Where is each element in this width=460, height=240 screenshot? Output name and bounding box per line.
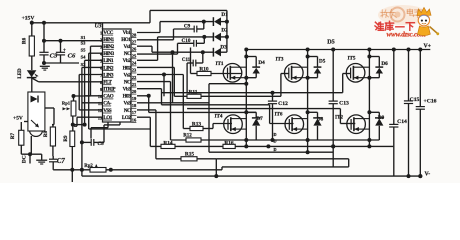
- svg-text:HIN1: HIN1: [103, 37, 114, 43]
- svg-text:D9: D9: [378, 115, 385, 121]
- wire opto-DC row: [21, 153, 41, 155]
- svg-text:D: D: [274, 132, 277, 137]
- watermark mascot: [417, 8, 431, 16]
- wire riser S4 bundle: [84, 60, 86, 124]
- svg-text:20: 20: [132, 89, 137, 94]
- node phase1 mid: [244, 110, 248, 114]
- node IT1 source: [244, 76, 248, 80]
- node CAO elbow: [147, 94, 151, 98]
- svg-text:R10: R10: [199, 67, 209, 73]
- node A3: [109, 168, 113, 172]
- svg-text:17: 17: [132, 110, 137, 115]
- wire bus146: [150, 145, 393, 147]
- wire bus161 (R15 run): [156, 158, 181, 160]
- wire R15 right: [197, 158, 216, 160]
- svg-text:ITRIP: ITRIP: [103, 87, 115, 93]
- capacitor C10: [178, 42, 194, 44]
- svg-text:R13: R13: [192, 122, 202, 128]
- LED D-LED: [27, 70, 37, 77]
- wire mesh drop A: [172, 52, 174, 103]
- wire R7 top: [20, 122, 22, 130]
- diode D3: [212, 48, 214, 57]
- diode D2: [212, 33, 214, 42]
- svg-text:HO1: HO1: [121, 37, 131, 43]
- wire riser rail: [215, 159, 217, 176]
- diode D5 cathode step: [317, 57, 319, 68]
- wire D9 top tie: [369, 111, 379, 113]
- wire bus140: [171, 139, 380, 141]
- svg-text:NC: NC: [124, 108, 131, 114]
- svg-text:D6: D6: [381, 61, 388, 67]
- svg-text:CA-: CA-: [103, 101, 111, 107]
- wire mesh riser R13: [182, 75, 184, 129]
- wire D8 top tie: [308, 111, 318, 113]
- svg-text:22: 22: [132, 75, 137, 80]
- svg-text:C14: C14: [397, 119, 407, 125]
- svg-text:CAO: CAO: [103, 94, 113, 100]
- svg-text:C5: C5: [50, 52, 58, 59]
- transistor IT4: [224, 115, 243, 134]
- resistor R16: [223, 144, 235, 148]
- svg-text:R12: R12: [183, 134, 192, 139]
- node bus83 end: [244, 82, 248, 86]
- svg-text:27: 27: [132, 39, 137, 44]
- transistor IT5: [346, 64, 365, 83]
- wire stray drop: [71, 170, 73, 182]
- resistor R7: [19, 130, 24, 145]
- svg-text:D5: D5: [327, 39, 335, 46]
- svg-text:H02: H02: [123, 65, 132, 71]
- wire LED to FLT: [39, 81, 103, 83]
- wire IT6 gate riser: [269, 105, 271, 124]
- node A2: [80, 168, 84, 172]
- wire mesh Vs2 row: [137, 74, 183, 76]
- wire LED to FLT diagonal: [32, 78, 39, 82]
- wire VSS left stub: [79, 109, 102, 111]
- svg-text:Vb3: Vb3: [123, 87, 132, 93]
- svg-text:13: 13: [98, 115, 103, 120]
- svg-text:NC: NC: [124, 51, 131, 57]
- optocoupler input diode: [31, 96, 38, 103]
- svg-text:Rp2: Rp2: [84, 164, 93, 169]
- svg-text:R14: R14: [163, 140, 173, 146]
- wire Vs1 riser: [151, 46, 153, 52]
- wire +15V drop to R6: [31, 21, 33, 37]
- transistor IT1: [223, 64, 242, 83]
- svg-text:18: 18: [132, 103, 137, 108]
- wire mesh row13 stub: [137, 116, 150, 118]
- wire Rp1 to R9: [72, 116, 74, 131]
- svg-text:LIN1: LIN1: [103, 58, 114, 64]
- svg-text:LIN3: LIN3: [103, 72, 114, 78]
- trimmer Rp2: [90, 168, 106, 173]
- svg-text:DC: DC: [21, 155, 27, 163]
- wire V+ top rail: [246, 49, 430, 51]
- resistor R9: [70, 131, 75, 147]
- wire R8 top: [52, 125, 54, 127]
- node C9 junction: [202, 20, 206, 24]
- svg-text:S1: S1: [81, 35, 87, 40]
- wire mesh bus112: [149, 111, 257, 113]
- svg-text:IT4: IT4: [214, 113, 222, 119]
- wire mesh riser B: [161, 89, 163, 105]
- svg-text:D7: D7: [256, 116, 263, 122]
- capacitor C8: [82, 141, 91, 143]
- wire diode anode column: [226, 10, 228, 52]
- wire +15V rail: [32, 22, 150, 24]
- wire C11 drop: [186, 63, 188, 93]
- svg-text:C12: C12: [278, 101, 288, 107]
- svg-text:+5V: +5V: [13, 116, 23, 122]
- wire mesh bus96 right: [201, 95, 281, 97]
- node IT3 source: [306, 76, 310, 80]
- wire mesh FLT row: [137, 81, 171, 83]
- svg-text:+15V: +15V: [22, 16, 35, 22]
- wire S1 row (C5/C6 top rail): [44, 40, 103, 42]
- svg-text:24: 24: [132, 61, 137, 66]
- wire input row S to pin 4: [89, 52, 103, 54]
- wire +15V elbow up: [149, 10, 151, 22]
- svg-text:D3: D3: [220, 45, 227, 51]
- svg-text:C9: C9: [184, 24, 191, 30]
- wire input row S to pin 5: [85, 59, 103, 61]
- wire phase3 column: [368, 50, 370, 147]
- svg-text:V+: V+: [424, 44, 432, 50]
- diode D6 cathode step: [378, 57, 380, 68]
- wire mesh riser R15: [155, 110, 157, 159]
- wire input row S to pin 7: [79, 74, 102, 76]
- svg-text:V-: V-: [425, 172, 431, 178]
- svg-text:28: 28: [132, 32, 137, 37]
- diode D6: [375, 66, 383, 68]
- resistor R6: [29, 36, 34, 56]
- wire bus152: [209, 151, 333, 153]
- node C11 junction: [201, 50, 205, 54]
- svg-text:VSS: VSS: [103, 108, 112, 114]
- node Vs2 row tap: [162, 73, 166, 77]
- svg-text:S2: S2: [81, 62, 87, 67]
- node bus146 phase3: [367, 144, 371, 148]
- wire riser S3 bundle: [90, 46, 92, 96]
- svg-text:Vs1: Vs1: [124, 44, 132, 50]
- svg-text:IT5: IT5: [347, 56, 355, 62]
- resistor R14: [161, 144, 175, 148]
- wire riser end159: [348, 159, 350, 167]
- svg-text:R6: R6: [22, 37, 28, 44]
- capacitor C9: [174, 28, 195, 30]
- wire Vs1 stub: [137, 45, 152, 47]
- wire mesh bus96 left: [174, 95, 187, 97]
- node C10 junction: [202, 35, 206, 39]
- wire mesh riser R11b: [163, 75, 165, 97]
- wire IT5 source to D6: [369, 77, 379, 79]
- diode D1: [212, 17, 214, 26]
- svg-text:IT6: IT6: [274, 111, 282, 117]
- node DC junction: [28, 152, 32, 156]
- wire opto right tap: [45, 107, 54, 109]
- node IT5 source: [367, 76, 371, 80]
- svg-text:LO2: LO2: [122, 115, 131, 121]
- svg-text:R8: R8: [44, 130, 49, 137]
- svg-text:+C16: +C16: [423, 98, 436, 104]
- wire tap to C8 branch: [73, 124, 85, 126]
- node phase2 rail: [306, 48, 310, 52]
- node phase2 low: [306, 138, 310, 142]
- wire LED to optocoupler: [31, 77, 33, 92]
- transistor IT6: [285, 115, 304, 134]
- wire bus166: [222, 166, 349, 168]
- svg-text:D1: D1: [221, 12, 228, 18]
- svg-text:23: 23: [132, 68, 137, 73]
- capacitor C12: [272, 93, 274, 101]
- svg-text:NC: NC: [124, 79, 131, 85]
- svg-text:FLT: FLT: [103, 79, 112, 85]
- svg-text:Vb1: Vb1: [123, 30, 132, 36]
- node D3 wire junction A: [171, 50, 175, 54]
- svg-text:C7: C7: [57, 158, 66, 165]
- svg-text:R7: R7: [11, 132, 16, 139]
- svg-text:+: +: [63, 47, 66, 53]
- wire mesh row12 stub: [137, 109, 156, 111]
- wire bus159: [216, 158, 348, 160]
- diode D4 cathode step: [255, 57, 257, 68]
- wire mesh H02 row: [137, 66, 174, 68]
- svg-text:26: 26: [132, 46, 137, 51]
- wire R13 run: [183, 128, 190, 130]
- node Rp1-C8 tap: [71, 123, 75, 127]
- node bus146 C13: [331, 144, 335, 148]
- svg-text:Vs3: Vs3: [124, 101, 132, 107]
- svg-text:LO1: LO1: [103, 115, 112, 121]
- wire IT5 gate riser: [342, 74, 344, 93]
- svg-text:HIN2: HIN2: [103, 44, 114, 50]
- node C5 bottom: [42, 61, 46, 65]
- svg-text:H03: H03: [123, 94, 132, 100]
- diode D7: [252, 117, 261, 119]
- wire Vb1 stub: [137, 32, 160, 34]
- svg-text:10: 10: [98, 94, 103, 99]
- wire top feed run: [150, 9, 227, 11]
- wire phase1 column: [245, 50, 247, 147]
- wire IT1 source to D4: [246, 77, 256, 79]
- wire mesh Vs3 row: [137, 102, 209, 104]
- wire rail drop: [81, 170, 83, 176]
- wire R10 riser: [190, 48, 192, 74]
- transistor IT2: [347, 115, 366, 134]
- svg-text:C6: C6: [68, 52, 76, 59]
- wire CAO left stub: [85, 95, 103, 97]
- wire VCC corner drop: [102, 23, 104, 29]
- node phase2 end: [306, 150, 310, 154]
- wire mesh bus104: [162, 104, 270, 106]
- wire mesh riser D: [208, 84, 210, 153]
- svg-text:S3: S3: [81, 41, 87, 46]
- wire C10 elbow: [177, 43, 179, 54]
- svg-text:19: 19: [132, 96, 137, 101]
- wire mesh riser R11: [173, 67, 175, 96]
- ground DC: [41, 154, 43, 160]
- wire DC stub: [29, 154, 31, 163]
- wire mesh bus83: [209, 83, 246, 85]
- svg-text:25: 25: [132, 54, 137, 59]
- svg-text:S4: S4: [81, 55, 87, 60]
- svg-text:C10: C10: [182, 38, 191, 44]
- resistor R11: [187, 94, 201, 98]
- wire bundle bottom jog: [74, 95, 91, 97]
- wire mesh ITRIP row: [137, 88, 162, 90]
- svg-text:D: D: [274, 147, 277, 152]
- node phase1 end: [244, 144, 248, 148]
- wire mesh CAO row: [137, 95, 149, 97]
- node D1 anode: [225, 20, 229, 24]
- svg-text:D2: D2: [221, 28, 228, 34]
- svg-text:Vb2: Vb2: [123, 58, 132, 64]
- wire mesh bus92: [162, 92, 343, 94]
- svg-text:16: 16: [132, 117, 137, 122]
- trimmer Rp1: [71, 101, 76, 116]
- node phase2 mid: [306, 110, 310, 114]
- svg-text:C15: C15: [410, 97, 420, 103]
- wire opto out: [30, 136, 32, 154]
- wire mesh bus108: [187, 108, 340, 110]
- ground under C5: [40, 65, 50, 67]
- node bus146 tap: [266, 144, 270, 148]
- wire VSS loop: [89, 128, 151, 130]
- svg-text:R15: R15: [185, 152, 195, 158]
- svg-text:VCC: VCC: [103, 30, 113, 36]
- svg-text:LED: LED: [18, 68, 23, 79]
- svg-text:D5: D5: [319, 58, 326, 64]
- wire phase2 column: [307, 50, 309, 153]
- svg-text:Vs2: Vs2: [124, 72, 132, 78]
- wire R7 bottom: [20, 145, 22, 154]
- resistor R13: [190, 126, 203, 130]
- wire IT2 gate riser: [339, 109, 341, 124]
- wire IT3 source to D5: [308, 77, 318, 79]
- node Rp1 top: [72, 94, 76, 98]
- diode D9: [375, 117, 384, 119]
- node phase3 mid: [367, 110, 371, 114]
- wire C5 branch drop: [43, 23, 45, 41]
- wire LO1 left stub: [77, 116, 103, 118]
- capacitor C5: [43, 41, 45, 53]
- wire low bus A: [53, 169, 222, 171]
- capacitor C11: [187, 62, 193, 64]
- wire Vb2 stub: [137, 59, 158, 61]
- capacitor C13: [332, 50, 334, 102]
- wire +5V feed: [24, 121, 28, 123]
- svg-text:11: 11: [98, 101, 103, 106]
- wire riser S2 bundle: [81, 67, 83, 169]
- node phase3 rail: [367, 48, 371, 52]
- wire input row S to pin 3: [91, 45, 103, 47]
- wire R9 bottom: [71, 147, 73, 170]
- capacitor C16: [419, 50, 421, 107]
- svg-text:HIN3: HIN3: [103, 51, 114, 57]
- wire C5/C6 bottom tie: [44, 62, 79, 64]
- wire CA- left stub: [82, 102, 103, 104]
- optocoupler U-opto box: [28, 92, 45, 131]
- wire IT4 gate: [203, 128, 213, 130]
- wire Vb1 to D1: [160, 21, 213, 23]
- svg-text:12: 12: [98, 108, 103, 113]
- svg-text:21: 21: [132, 82, 137, 87]
- svg-text:R16: R16: [224, 140, 234, 146]
- capacitor C15: [408, 50, 410, 101]
- svg-text:C8: C8: [98, 141, 105, 147]
- node C5 branch junction: [42, 21, 46, 25]
- wire input row S to pin 6: [82, 66, 103, 68]
- capacitor C6: [60, 41, 62, 53]
- capacitor C7: [52, 156, 54, 159]
- node phase1 low: [244, 138, 248, 142]
- wire Rp1 top: [73, 96, 75, 101]
- watermark dzsc text: [378, 5, 428, 25]
- transistor IT3: [285, 64, 304, 83]
- svg-text:IT1: IT1: [215, 61, 223, 67]
- optocoupler output arc: [30, 131, 43, 136]
- node phase3 low: [367, 138, 371, 142]
- wire Vb2 to D2: [158, 36, 214, 38]
- node rail C16: [418, 174, 422, 178]
- wire riser S5 bundle: [88, 53, 90, 129]
- wire C9 elbow: [173, 29, 175, 40]
- wire mesh riser R12: [170, 82, 172, 140]
- svg-text:IT2: IT2: [335, 115, 343, 121]
- wire C8 right riser: [103, 125, 105, 142]
- svg-text:Rp1: Rp1: [62, 100, 71, 105]
- wire VSS snake: [107, 122, 109, 128]
- diode D5: [314, 66, 322, 68]
- wire Vs1 to D3: [152, 51, 213, 53]
- node A1: [70, 168, 74, 172]
- op-amp driver IC U3 body: [103, 29, 132, 122]
- svg-text:D8: D8: [317, 117, 324, 123]
- wire IT3 gate riser: [280, 74, 282, 97]
- svg-text:R9: R9: [64, 135, 69, 142]
- resistor R15: [181, 157, 197, 161]
- wire R6 to LED: [31, 56, 33, 70]
- node S1 row junction: [59, 39, 63, 43]
- diode D8: [313, 117, 322, 119]
- wire riser A-166: [221, 167, 223, 170]
- node C8 branch: [83, 123, 87, 127]
- node +15V junction: [30, 21, 34, 25]
- node D2 anode: [225, 35, 229, 39]
- node phase1 rail: [244, 48, 248, 52]
- wire R8 to C7: [52, 146, 54, 156]
- wire Vb1 riser: [159, 22, 161, 33]
- wire riser LIN3 bundle: [78, 75, 80, 110]
- diode D4: [252, 66, 260, 68]
- svg-text:D4: D4: [258, 60, 265, 66]
- wire mesh riser R14: [149, 117, 151, 146]
- resistor R12: [186, 138, 201, 142]
- capacitor C14: [393, 50, 395, 125]
- resistor R10: [191, 73, 198, 75]
- node C5 top: [42, 39, 46, 43]
- svg-text:C13: C13: [339, 100, 349, 106]
- svg-text:S5: S5: [81, 48, 87, 53]
- wire D7 top tie: [246, 111, 256, 113]
- svg-text:LIN2: LIN2: [103, 65, 114, 71]
- svg-text:C11: C11: [182, 58, 191, 63]
- wire V- rail: [82, 175, 422, 177]
- wire Vb2 riser: [157, 37, 159, 60]
- svg-text:IT3: IT3: [275, 57, 283, 63]
- wire mesh riser C: [148, 96, 150, 113]
- node rail junction: [214, 174, 218, 178]
